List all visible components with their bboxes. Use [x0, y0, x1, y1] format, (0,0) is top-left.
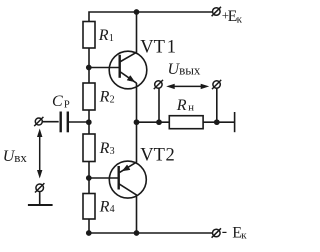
svg-text:Uвх: Uвх — [3, 148, 28, 165]
wire bus R1-R2 — [88, 48, 90, 83]
wire lower input terminal stem — [39, 192, 41, 206]
terminal +Ek — [212, 7, 221, 16]
wire VT1 emitter to output — [136, 83, 138, 122]
junction node R2/R3/C_P — [86, 119, 92, 125]
junction node left output stem — [156, 119, 162, 125]
wire bus R2-R3 — [88, 110, 90, 134]
svg-text:VT2: VT2 — [140, 146, 174, 166]
arrow U_vx (vertical double arrow) — [37, 129, 42, 179]
ground bar — [28, 204, 53, 206]
wire VT1 collector — [136, 12, 138, 53]
terminal input upper — [34, 117, 43, 126]
terminal output left — [154, 80, 163, 89]
wire bus R4-bottom — [88, 219, 90, 233]
wire VT2 collector to bottom — [136, 196, 138, 234]
capacitor C_P — [61, 112, 68, 133]
svg-text:Uвых: Uвых — [168, 61, 201, 78]
wire top rail — [89, 12, 213, 22]
resistor R4 — [83, 194, 95, 220]
junction node emitters/output row — [134, 119, 140, 125]
junction node VT2 collector/bottom rail — [134, 230, 140, 236]
junction node R3/R4/VT2 base — [86, 175, 92, 181]
wire bottom rail — [89, 232, 213, 234]
terminal output right — [212, 80, 221, 89]
wire right output terminal stem — [216, 88, 218, 122]
junction node top rail / VT1 collector — [134, 9, 140, 15]
junction node R4/bottom rail — [86, 230, 92, 236]
wire left output terminal stem — [158, 88, 160, 122]
wire base VT1 — [89, 67, 119, 69]
transistor VT2 (PNP) — [109, 161, 146, 198]
svg-text:VT1: VT1 — [140, 38, 176, 58]
wire VT2 emitter from output — [136, 122, 138, 162]
resistor R2 — [83, 83, 95, 110]
terminal input lower — [35, 183, 44, 192]
resistor Rn load — [169, 116, 203, 129]
transistor VT1 (NPN) — [109, 51, 147, 89]
resistor R1 — [83, 22, 95, 49]
wire input to capacitor — [42, 121, 58, 123]
wire bus R3-R4 — [88, 162, 90, 194]
wire base VT2 — [89, 177, 118, 179]
wire capacitor to bus — [69, 121, 89, 123]
terminal -Ek — [212, 228, 221, 237]
end bar right of output row — [234, 112, 236, 132]
arrow U_vyx (horizontal double arrow) — [166, 84, 209, 89]
resistor R3 — [83, 134, 95, 162]
wire output row — [137, 121, 235, 123]
junction node R1/R2/VT1 base — [86, 65, 92, 71]
junction node right output stem — [214, 119, 220, 125]
